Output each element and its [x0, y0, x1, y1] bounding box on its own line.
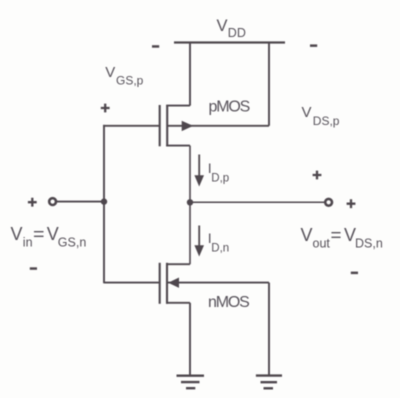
- svg-text:=: =: [331, 225, 342, 245]
- svg-text:DD: DD: [228, 26, 246, 40]
- svg-text:D,n: D,n: [211, 243, 229, 255]
- wire VDD rail right end down to pMOS bulk line: [268, 43, 270, 126]
- nMOS Q2 source stub (bottom): [166, 302, 190, 304]
- wire input vertical: [103, 125, 105, 283]
- wire nMOS bulk down to right ground: [268, 283, 270, 376]
- node junction dot at input: [101, 198, 107, 204]
- current arrow I_D,n: [194, 226, 204, 257]
- svg-text:nMOS: nMOS: [208, 294, 249, 311]
- label V_GS,p: [105, 64, 143, 88]
- pMOS gate wire: [103, 125, 160, 127]
- wire VDD rail to pMOS source stub: [189, 43, 191, 106]
- label I_D,n: [208, 230, 230, 255]
- output terminal circle: [325, 199, 332, 206]
- svg-text:DS,p: DS,p: [313, 114, 340, 128]
- svg-text:V: V: [105, 64, 115, 81]
- label I_D,p: [208, 160, 230, 184]
- ground symbol right: [256, 376, 282, 389]
- label V_out = V_DS,n: [301, 225, 383, 251]
- plus sign right of output terminal: [347, 199, 356, 208]
- label V_DS,p: [302, 104, 340, 128]
- wire input horizontal: [57, 201, 105, 203]
- svg-text:out: out: [313, 237, 331, 251]
- ground symbol left: [177, 376, 205, 389]
- plus sign above output (V_DS,p plus): [313, 171, 322, 180]
- plus sign for V_GS,p: [101, 104, 110, 113]
- svg-text:pMOS: pMOS: [209, 99, 250, 116]
- svg-text:V: V: [301, 225, 313, 245]
- pMOS Q1 source stub (top): [166, 105, 190, 107]
- wire output horizontal: [190, 201, 324, 203]
- svg-text:GS,n: GS,n: [58, 235, 87, 249]
- svg-text:V: V: [11, 224, 23, 244]
- VDD rail: [174, 41, 285, 43]
- pMOS Q1 channel bar: [166, 105, 168, 146]
- svg-text:=: =: [33, 224, 45, 244]
- wire drain column (pMOS drain to nMOS drain): [189, 146, 191, 265]
- pMOS bulk wire to VDD: [168, 125, 269, 127]
- pMOS Q1 drain stub (bottom): [166, 145, 190, 147]
- nMOS Q2 gate bar: [159, 263, 161, 304]
- svg-text:GS,p: GS,p: [116, 74, 144, 88]
- minus sign near VDD right: [310, 44, 317, 47]
- nMOS Q2 drain stub (top): [166, 263, 190, 265]
- nMOS bulk wire to ground: [167, 282, 269, 284]
- input terminal circle: [49, 198, 56, 205]
- plus sign at input: [28, 198, 37, 207]
- node junction dot at output: [187, 199, 193, 205]
- minus sign below V_out: [351, 272, 358, 275]
- nMOS gate wire: [104, 282, 160, 284]
- pMOS source arrow (points right into channel area): [182, 121, 194, 131]
- svg-text:D,p: D,p: [211, 172, 229, 184]
- label V_in = V_GS,n: [11, 224, 87, 249]
- svg-text:DS,n: DS,n: [355, 237, 383, 251]
- nMOS bulk arrow (points left to channel): [168, 278, 179, 288]
- svg-text:V: V: [217, 17, 228, 35]
- svg-text:in: in: [23, 235, 33, 249]
- wire nMOS source down to left ground: [189, 303, 191, 376]
- current arrow I_D,p: [194, 155, 204, 187]
- nMOS Q2 channel bar: [166, 263, 168, 304]
- minus sign near VDD left: [152, 45, 159, 48]
- minus sign below V_in: [30, 267, 37, 270]
- label V_DD: [217, 17, 246, 40]
- pMOS Q1 gate bar: [159, 105, 161, 146]
- svg-text:V: V: [302, 104, 312, 121]
